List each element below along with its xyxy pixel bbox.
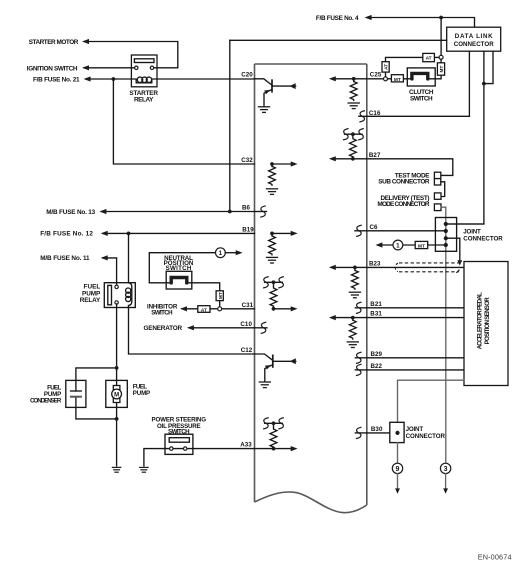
wire branch down to C32: [113, 79, 254, 164]
pressure switch bar: [169, 438, 189, 443]
pin C16 wire to DLC: [367, 115, 470, 117]
break C10 stub inside ECM: [255, 327, 268, 329]
junction condenser bottom: [115, 417, 119, 421]
break C6 stub inside ECM: [355, 230, 367, 232]
wire arrow below circle 9: [397, 474, 399, 489]
connector circle AT/MT split 2: [218, 307, 222, 311]
svg-text:MT: MT: [418, 244, 425, 250]
pin C6 wire to joint connector: [367, 230, 446, 232]
wire DLC pin down to joint connector: [446, 51, 484, 224]
junction fuse21/C32 branch: [112, 77, 116, 81]
condenser capacitor plates: [70, 390, 82, 392]
fuel pump relay coil: [129, 283, 132, 308]
wire inhibitor to AT box: [182, 308, 198, 310]
wire delivery sq2 down joint connector bus: [441, 207, 446, 463]
svg-text:B19: B19: [242, 227, 254, 234]
pin B31 wire to accelerator sensor: [367, 317, 464, 319]
starter relay contact stubs: [131, 67, 157, 69]
wire joint pin3 to shield: [446, 238, 460, 261]
svg-text:C16: C16: [369, 110, 381, 117]
svg-text:POSITION SENSOR: POSITION SENSOR: [484, 297, 491, 345]
reference circle 1 with MT to joint pin4: [383, 244, 446, 246]
svg-text:AT: AT: [201, 308, 207, 314]
svg-text:MT: MT: [394, 77, 401, 83]
svg-text:A33: A33: [240, 442, 252, 449]
svg-text:B30: B30: [371, 426, 383, 433]
wire pressure switch to ground: [144, 449, 165, 466]
ground pressure switch: [139, 467, 149, 472]
svg-text:MT: MT: [218, 292, 224, 299]
variant box AT horizontal: [423, 53, 435, 61]
reference circle 1 left: [216, 248, 226, 258]
svg-text:B21: B21: [370, 301, 382, 308]
svg-text:DATA LINK: DATA LINK: [455, 33, 493, 40]
pin C25 wire to clutch circle: [367, 78, 384, 80]
wire neutral switch to MT box to circle: [192, 283, 220, 307]
svg-text:MT: MT: [439, 65, 445, 72]
wire joint connector 2 down: [397, 443, 399, 464]
break B30 stub inside ECM: [355, 432, 367, 434]
resistor C25 pull inside ECM: [335, 79, 367, 82]
wire fuse12 to B19: [103, 232, 255, 234]
variant box MT horizontal 2: [415, 241, 428, 248]
svg-text:GENERATOR: GENERATOR: [144, 325, 183, 332]
transistor Q1 (C20 starter relay drive): [255, 79, 273, 85]
wire test mode sq2 to delivery sq1: [441, 182, 445, 197]
svg-text:M/B FUSE No. 13: M/B FUSE No. 13: [46, 209, 95, 216]
wire pressure switch to A33: [193, 448, 255, 450]
svg-text:C12: C12: [241, 347, 253, 354]
joint connector pins: [444, 222, 448, 226]
break B22 stub inside ECM: [355, 369, 367, 371]
svg-text:1: 1: [396, 242, 400, 249]
starter relay coil: [131, 79, 157, 83]
shield dashed box around B23: [399, 263, 459, 272]
resistor B19 inside ECM: [272, 233, 291, 236]
svg-text:F/B FUSE No. 4: F/B FUSE No. 4: [316, 15, 359, 22]
wire generator to C10: [189, 327, 255, 329]
svg-text:STARTER MOTOR: STARTER MOTOR: [29, 39, 79, 46]
svg-text:CONDENSER: CONDENSER: [30, 398, 62, 405]
connector circle AT top: [439, 55, 443, 59]
wire condenser branch: [76, 368, 117, 419]
svg-text:C25: C25: [370, 72, 382, 79]
svg-text:SWITCH: SWITCH: [410, 96, 433, 103]
junction condenser top: [115, 366, 119, 370]
svg-text:M: M: [114, 392, 119, 398]
sensor ACCELERATOR PEDAL POSITION SENSOR box: [464, 262, 508, 386]
motor FUEL PUMP box: [106, 380, 128, 407]
resistor B31 inside ECM: [335, 318, 367, 321]
wire bus top to DLC: [230, 39, 447, 41]
svg-text:C31: C31: [242, 302, 254, 309]
wire circle up to fuse4 junction: [440, 18, 442, 56]
variant box MT vertical: [437, 63, 444, 75]
clutch switch contacts: [407, 78, 435, 80]
svg-text:9: 9: [396, 466, 400, 473]
starter relay contact bar: [134, 59, 154, 63]
wire arrow right of circle 1: [225, 252, 236, 254]
svg-text:CONNECTOR: CONNECTOR: [463, 235, 503, 242]
resistor C32 inside ECM: [272, 164, 291, 166]
capacitor FUEL PUMP CONDENSER box: [66, 380, 86, 407]
wire circle down through MT to clutch switch: [435, 59, 441, 79]
svg-text:EN-00674: EN-00674: [478, 552, 512, 561]
svg-text:CONNECTOR: CONNECTOR: [454, 41, 495, 48]
variant box MT horizontal: [391, 75, 403, 82]
variant box MT vertical 2: [216, 291, 223, 301]
break B6 stub inside ECM: [255, 211, 267, 213]
pin B21 wire to accelerator sensor: [367, 307, 464, 309]
wire joint pin1 to DLC line: [446, 223, 484, 225]
pin B22 wire to accelerator sensor: [367, 369, 464, 371]
svg-text:B6: B6: [242, 205, 251, 212]
svg-text:ACCELERATOR PEDAL: ACCELERATOR PEDAL: [477, 292, 484, 349]
svg-text:C20: C20: [241, 72, 253, 79]
ground fuel pump: [112, 467, 122, 472]
break B21 stub inside ECM: [355, 307, 367, 309]
relay FUEL PUMP RELAY box: [104, 283, 135, 308]
svg-text:B27: B27: [369, 152, 381, 159]
delivery mode connector squares: [434, 193, 441, 199]
svg-text:AT: AT: [426, 55, 432, 61]
variant box AT vertical: [382, 62, 389, 72]
svg-text:SUB CONNECTOR: SUB CONNECTOR: [378, 179, 430, 186]
svg-text:IGNITION SWITCH: IGNITION SWITCH: [27, 65, 78, 72]
svg-text:1: 1: [219, 250, 223, 257]
wire fuse11 to fuel pump relay switch: [103, 258, 117, 285]
wire fuse13 to B6: [101, 211, 254, 213]
svg-text:C10: C10: [240, 321, 252, 328]
neutral position switch loop to circle 1: [149, 253, 215, 283]
svg-text:SWITCH: SWITCH: [151, 309, 173, 316]
svg-text:B23: B23: [369, 260, 381, 267]
junction DLC pins: [482, 82, 486, 86]
svg-text:MODE CONNECTOR: MODE CONNECTOR: [377, 201, 429, 208]
wire AT box to connector circle: [210, 308, 218, 310]
resistor B23 inside ECM: [335, 267, 367, 270]
connector circle MT/AT split: [384, 77, 388, 81]
wire DLC pin to C16 line: [468, 51, 470, 116]
pin B27 wire to test mode connector: [367, 159, 453, 176]
test mode sub connector squares: [434, 172, 440, 178]
junction fuse12/fuel pump relay coil: [127, 232, 131, 236]
wire accelerator sensor to joint connector 2: [398, 380, 465, 422]
wire fuel pump relay coil to C12: [129, 308, 255, 355]
clutch switch bridge: [412, 73, 428, 78]
wire starter motor to relay contact: [84, 42, 178, 68]
fuel pump relay plunger bar: [108, 285, 112, 304]
relay STARTER RELAY box: [131, 55, 157, 87]
pin B23 wire to accelerator sensor: [367, 266, 464, 268]
pin B29 wire to accelerator sensor: [367, 357, 464, 359]
connector JOINT CONNECTOR box: [435, 218, 456, 252]
switch CLUTCH SWITCH box: [407, 68, 435, 86]
joint connector 2 pin: [395, 431, 399, 435]
svg-text:C6: C6: [370, 224, 379, 231]
fuel pump motor: [113, 386, 120, 390]
reference circle 9: [392, 463, 402, 473]
svg-text:B29: B29: [371, 351, 383, 358]
svg-text:RELAY: RELAY: [134, 97, 154, 104]
wire fuse12 branch to relay coil: [128, 233, 130, 282]
svg-text:AT: AT: [384, 64, 390, 70]
connector JOINT CONNECTOR 2 box: [390, 422, 404, 442]
fuel pump relay contact circles: [115, 285, 118, 288]
wire DLC third pin: [484, 51, 493, 83]
svg-text:B31: B31: [370, 311, 382, 318]
break B29 stub inside ECM: [355, 357, 367, 359]
svg-text:B22: B22: [371, 363, 383, 370]
switch NEUTRAL POSITION SWITCH box: [166, 271, 192, 289]
neutral switch contacts: [166, 282, 192, 284]
pressure switch contacts: [165, 448, 193, 450]
reference circle 3: [440, 463, 450, 473]
wire ignition switch to relay: [84, 67, 131, 69]
junction B6 bus: [228, 210, 232, 214]
svg-text:CONNECTOR: CONNECTOR: [406, 433, 446, 440]
svg-text:M/B FUSE No. 11: M/B FUSE No. 11: [40, 255, 90, 262]
starter relay contact circles: [135, 66, 138, 69]
break C16 stub inside ECM: [359, 115, 367, 117]
svg-text:3: 3: [444, 466, 448, 473]
svg-text:RELAY: RELAY: [80, 297, 101, 304]
svg-text:PUMP: PUMP: [133, 390, 150, 397]
resistor C31 with floating stub inside ECM: [265, 282, 291, 309]
svg-text:C32: C32: [241, 157, 253, 164]
ECM box (engine control module outline with wavy bottom): [255, 64, 367, 513]
wire fuse4 to data link connector: [367, 18, 475, 28]
pin B30 wire to joint connector 2: [367, 432, 390, 434]
transistor Q2 (C12 fuel pump relay drive): [255, 354, 273, 360]
wire bus vertical to B6: [229, 40, 231, 211]
wire fuel pump relay switch down to pump and ground: [116, 304, 118, 466]
wire circle1 to MT box to clutch switch: [388, 78, 408, 80]
wire AT branch up and right: [386, 57, 440, 76]
resistor B27 with floating stub inside ECM: [335, 134, 367, 159]
svg-text:F/B FUSE No. 21: F/B FUSE No. 21: [33, 76, 80, 83]
switch POWER STEERING OIL PRESSURE SWITCH box: [165, 434, 193, 454]
junction fuse4/clutch AT branch: [439, 16, 443, 20]
resistor A33 with floating stub inside ECM: [255, 423, 291, 448]
connector DATA LINK CONNECTOR box: [447, 27, 501, 51]
wire circle to C31: [222, 308, 255, 310]
wire arrow below circle 3: [445, 474, 447, 489]
wire fuse21 to starter relay coil and to C20: [86, 78, 255, 80]
variant box AT horizontal 2: [198, 306, 210, 313]
svg-text:F/B FUSE No. 12: F/B FUSE No. 12: [40, 231, 93, 238]
neutral switch bridge: [171, 278, 187, 283]
